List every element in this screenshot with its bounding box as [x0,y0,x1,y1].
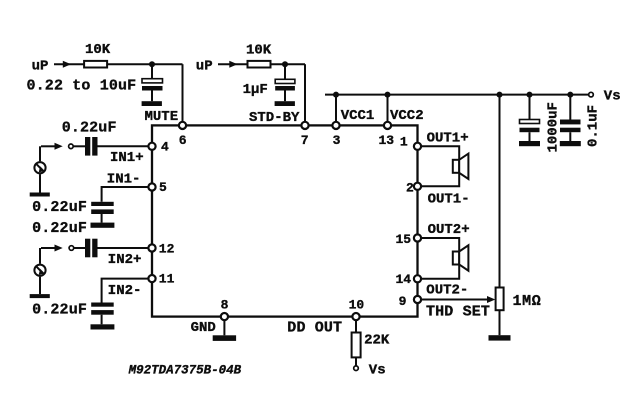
wire VCC1 to pin 3 [335,95,337,122]
ground (MUTE cap) [142,101,162,106]
svg-text:0.22uF: 0.22uF [32,302,87,319]
svg-text:OUT1+: OUT1+ [427,130,469,146]
ground (P1) [489,335,511,340]
wire down to pin 6 [182,64,184,121]
pin 12 [148,244,155,251]
svg-text:THD SET: THD SET [426,304,490,321]
capacitor C2 1uF (STD-BY) [275,64,295,101]
svg-text:2: 2 [406,180,414,195]
svg-text:1µF: 1µF [243,82,268,98]
capacitor C4 0.1uF [560,95,581,141]
resistor R2 10K (STD-BY) [248,61,271,68]
svg-text:OUT2-: OUT2- [426,283,468,299]
arrow wiper into P1 [487,296,495,303]
wire pin 14 to LS2 [421,265,459,279]
pin 2 [414,183,421,190]
svg-text:4: 4 [161,139,169,154]
wire pin 1 to LS1 [421,146,459,160]
terminal Vs (bottom) [354,366,359,371]
wire R2 to STD-BY node [271,63,306,65]
terminal Vs (top right) [589,92,594,97]
svg-text:14: 14 [396,272,412,287]
arrow into R1 [63,61,71,68]
signal source G2 [34,248,45,294]
terminal IN1 [69,144,74,149]
svg-text:uP: uP [32,59,49,75]
svg-text:VCC2: VCC2 [390,108,424,124]
ground (C4) [560,141,581,146]
pin 9 [414,296,421,303]
svg-text:0.22uF: 0.22uF [62,120,117,137]
svg-text:10K: 10K [85,42,111,58]
svg-text:8: 8 [221,297,229,312]
ground (C8) [91,324,115,329]
svg-text:VCC1: VCC1 [341,108,375,124]
svg-text:DD OUT: DD OUT [287,320,342,337]
wire pin 10 to R3 [355,320,357,333]
speaker LS1 [453,154,469,179]
svg-text:11: 11 [159,272,175,287]
svg-text:10: 10 [349,297,365,312]
svg-text:1: 1 [400,135,408,150]
pin 4 [148,143,155,150]
wire pin 8 to ground [223,320,225,335]
pin 7 [301,122,308,129]
wire down to pin 7 [304,64,306,121]
wire C7 to pin 12 [98,247,149,249]
wire R1 to MUTE node [107,63,182,65]
node VCC1 junction [333,92,339,98]
node MUTE junction [149,61,155,67]
svg-text:0.1uF: 0.1uF [586,105,602,147]
capacitor C6 0.22uF (IN1-) [91,202,114,223]
svg-text:13: 13 [379,133,395,148]
wire pin 11 to C8 [102,279,148,303]
supply rail Vs [325,94,589,96]
wire terminal to C5 [73,145,85,147]
pin 10 [352,313,359,320]
arrow IN2 [55,245,63,252]
capacitor C3 1000uF [520,95,540,141]
pin 1 [414,143,421,150]
pin 3 [332,122,339,129]
svg-text:IN2-: IN2- [108,283,142,299]
capacitor C7 0.22uF (IN2+) [85,239,98,258]
svg-text:uP: uP [196,59,213,75]
arrow into R2 [229,61,237,68]
wire P1 to ground [499,310,501,335]
wire C5 to pin 4 [98,145,149,147]
svg-text:M92TDA7375B-04B: M92TDA7375B-04B [128,364,242,378]
wire pin 15 to LS2 [421,238,459,252]
pin 14 [414,275,421,282]
svg-text:10K: 10K [246,43,272,59]
svg-text:IN1-: IN1- [107,171,141,187]
pin 13 [384,122,391,129]
wire uP to R2 [218,63,248,65]
wire R3 to Vs terminal [355,357,357,365]
wire rail to P1 [499,95,501,288]
node C4 junction [567,92,573,98]
node C3 junction [527,92,533,98]
resistor R1 10K (MUTE) [84,61,107,68]
ground (C3) [519,141,540,146]
pin 11 [148,275,155,282]
svg-text:0.22uF: 0.22uF [32,199,87,216]
svg-text:22K: 22K [364,333,390,349]
svg-text:STD-BY: STD-BY [249,110,300,126]
ground (G1) [30,193,50,197]
wire pin 2 to LS1 [421,173,459,187]
svg-text:3: 3 [333,133,341,148]
potentiometer P1 1M [496,288,504,311]
resistor R3 22K [352,333,361,358]
svg-text:0.22 to 10uF: 0.22 to 10uF [27,78,137,95]
ground (G2) [30,294,50,298]
node THD branch junction [497,92,503,98]
ground (C6) [91,223,115,228]
svg-text:OUT2+: OUT2+ [428,222,470,238]
svg-text:12: 12 [159,242,175,257]
svg-text:7: 7 [301,133,309,148]
svg-text:MUTE: MUTE [145,109,179,125]
pin 6 [179,122,186,129]
svg-text:1MΩ: 1MΩ [513,293,542,310]
node VCC2 junction [385,92,391,98]
speaker LS2 [453,245,469,270]
svg-text:Vs: Vs [604,88,621,104]
svg-text:Vs: Vs [369,363,386,379]
arrow IN1 [55,143,63,150]
ground (STD-BY cap) [275,101,295,106]
ground (pin 8 GND) [213,335,236,341]
terminal IN2 [69,246,74,251]
wire G1 to IN1 terminal [41,145,56,147]
wire G2 to IN2 terminal [41,247,56,249]
wire VCC2 to pin 13 [387,95,389,122]
svg-text:5: 5 [159,180,167,195]
capacitor C1 0.22-10uF (MUTE) [142,64,163,101]
pin 8 [221,313,228,320]
svg-text:6: 6 [179,133,187,148]
wire uP to R1 [54,63,84,65]
pin 5 [148,183,155,190]
svg-text:OUT1-: OUT1- [428,192,470,208]
capacitor C5 0.22uF (IN1+) [85,137,98,156]
svg-text:GND: GND [191,320,216,336]
svg-text:IN2+: IN2+ [108,252,142,268]
IC box U1 TDA7375 outline [152,125,418,316]
svg-text:15: 15 [396,232,412,247]
svg-text:0.22uF: 0.22uF [32,220,87,237]
signal source G1 [34,146,45,192]
capacitor C8 0.22uF (IN2-) [91,303,114,325]
node STD-BY junction [282,61,288,67]
wire pin 5 to C6 [102,187,148,202]
wire pin 9 to P1 [421,299,488,301]
svg-text:IN1+: IN1+ [110,150,144,166]
pin 15 [414,234,421,241]
svg-text:9: 9 [399,294,407,309]
svg-text:1000uF: 1000uF [546,102,562,152]
wire terminal to C7 [74,247,85,249]
